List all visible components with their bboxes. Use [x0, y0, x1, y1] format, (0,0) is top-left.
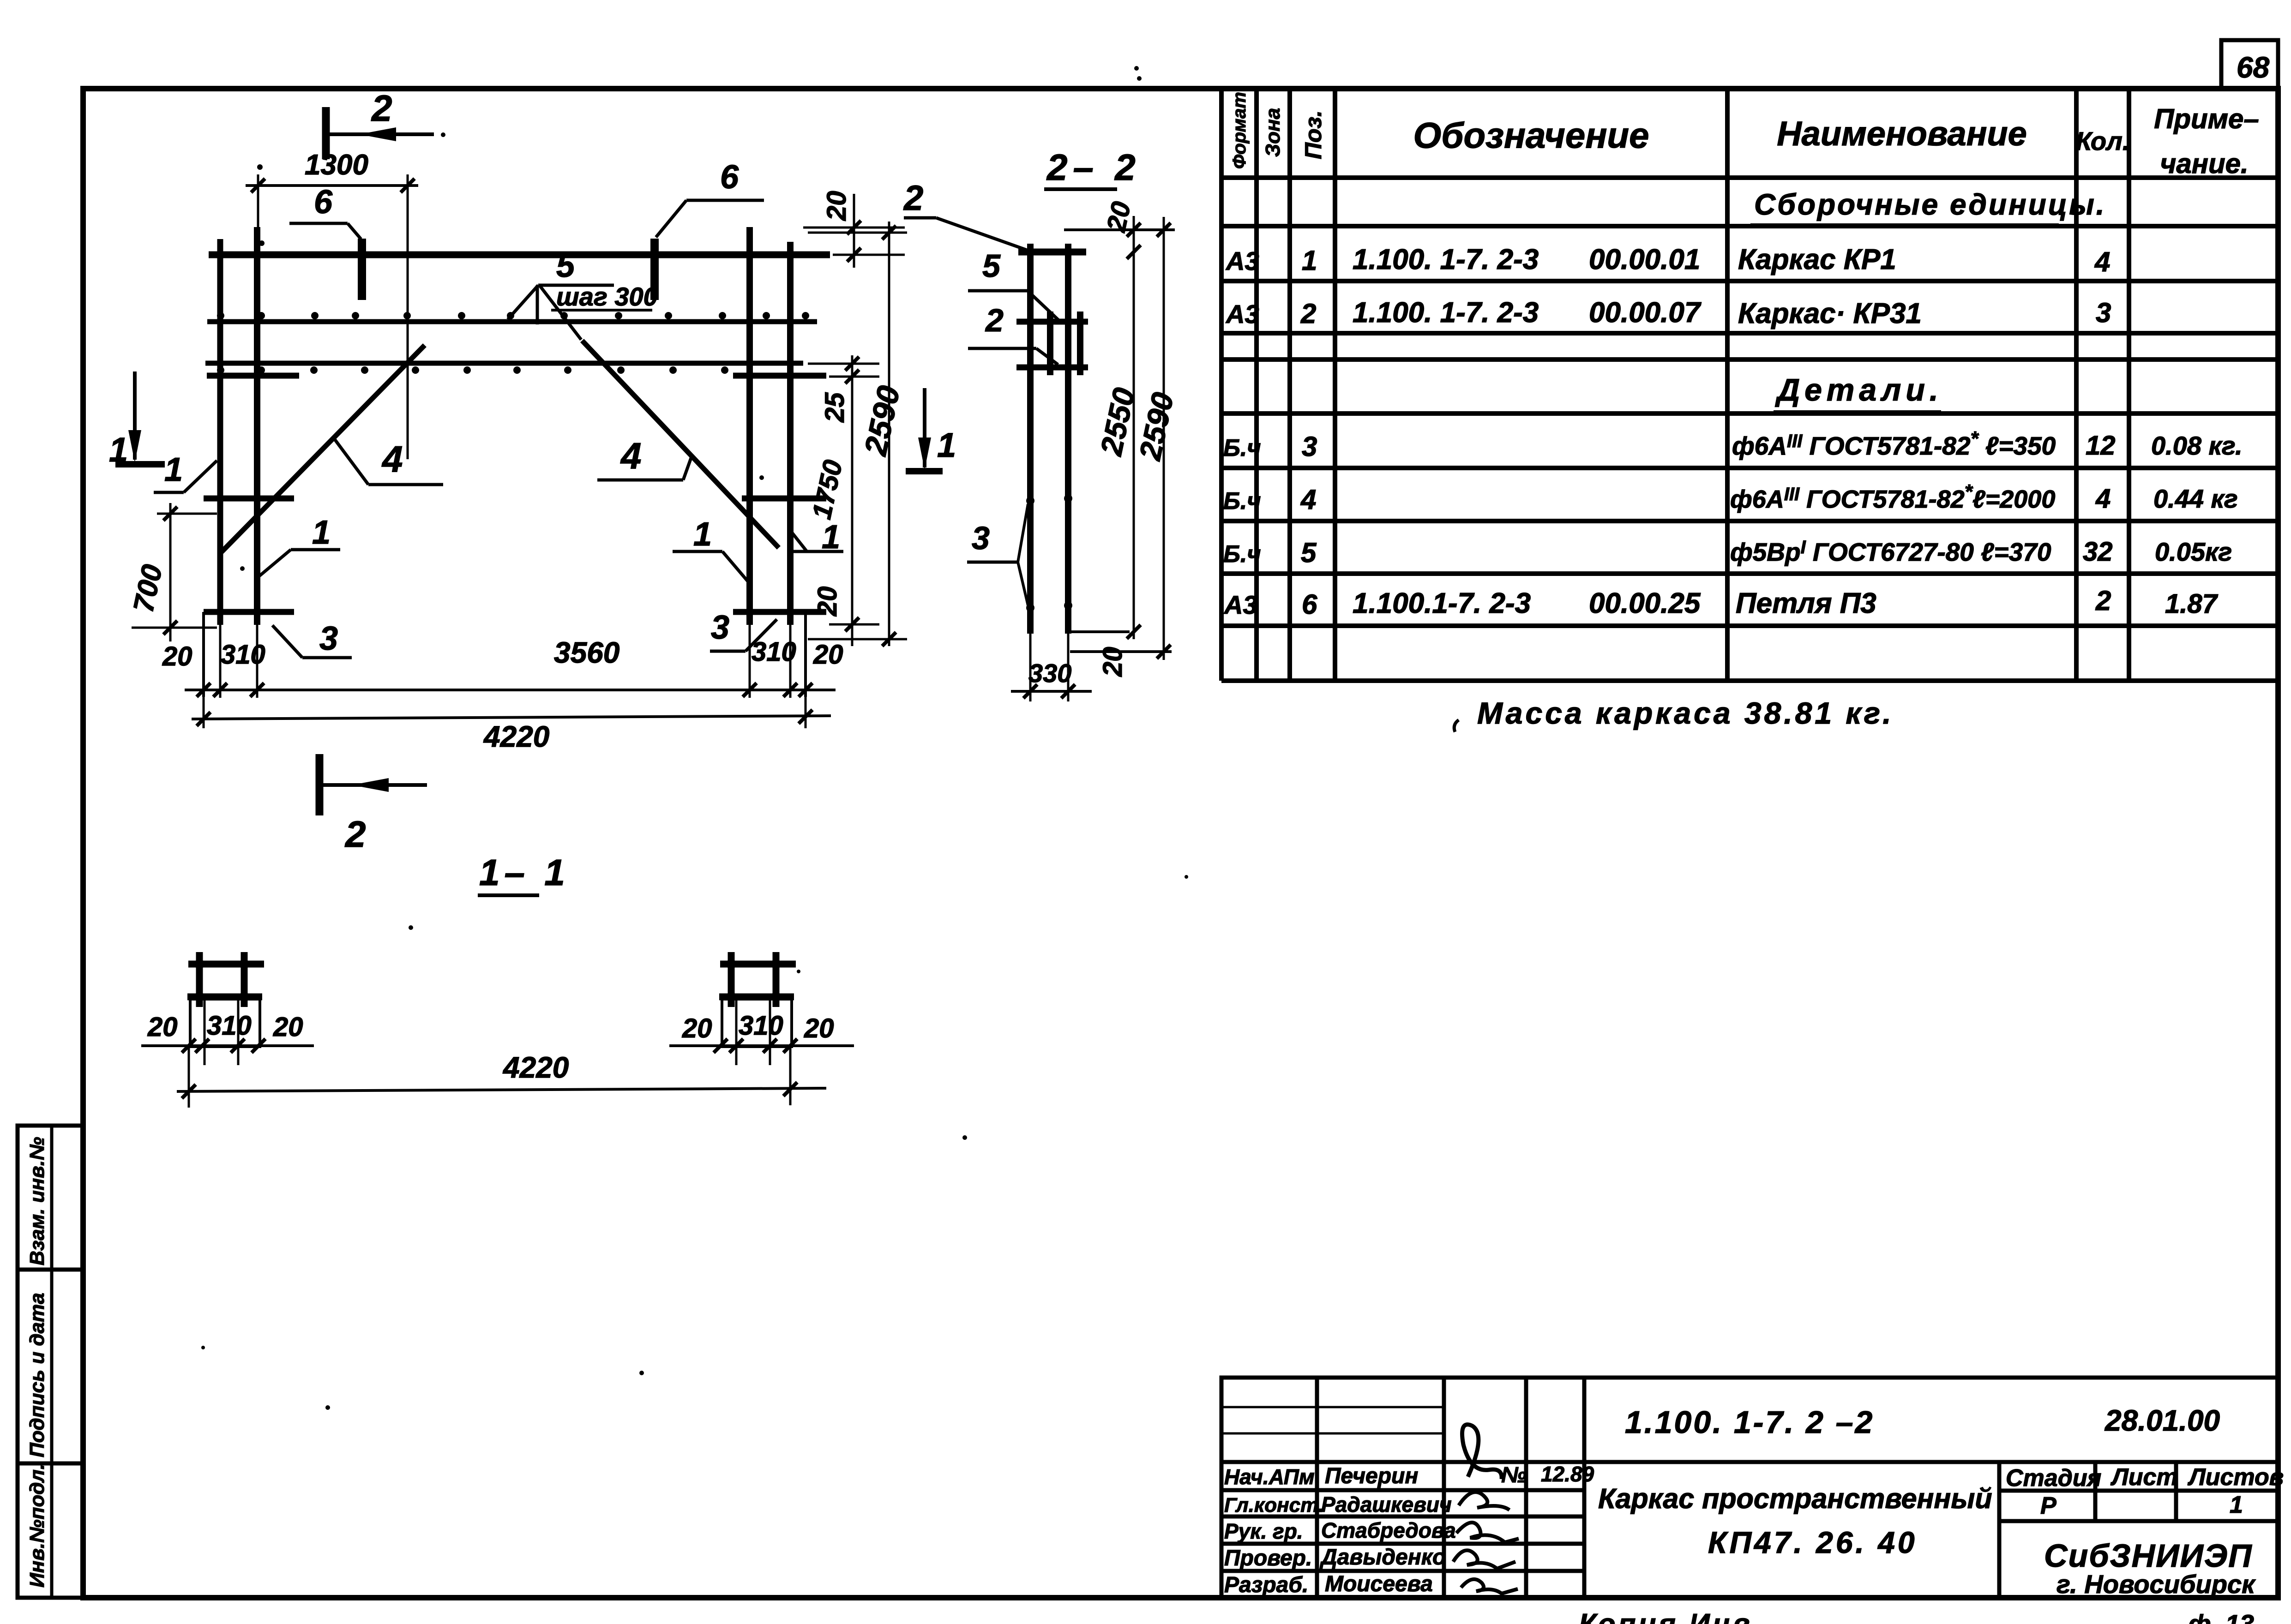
- bottom dimension chain 20/310/3560/310/20: [185, 689, 836, 691]
- weld dots on upper mesh bar (pos.5 cross wires): [217, 312, 809, 319]
- dimension 2590 right: [888, 222, 890, 646]
- svg-text:Лист: Лист: [2110, 1464, 2178, 1491]
- right column inner bar pos.1: [746, 227, 753, 625]
- svg-text:20: 20: [1098, 647, 1128, 677]
- section mark 1-1 right: [923, 388, 926, 467]
- svg-text:20: 20: [822, 191, 852, 221]
- svg-text:0.08 кг.: 0.08 кг.: [2151, 431, 2243, 460]
- svg-text:А3: А3: [1225, 300, 1259, 329]
- svg-text:чание.: чание.: [2160, 148, 2248, 179]
- 1-1 left column section contour: [190, 999, 260, 1047]
- svg-text:Провер.: Провер.: [1224, 1546, 1312, 1570]
- svg-text:0.05кг: 0.05кг: [2155, 537, 2232, 566]
- svg-text:3: 3: [711, 609, 729, 646]
- svg-text:Давыденко: Давыденко: [1319, 1545, 1446, 1570]
- dimension 20 top right: [803, 227, 905, 229]
- 1-1 left section inner extension lines: [204, 999, 206, 1065]
- left column cross bars pos.3: [207, 373, 299, 379]
- svg-text:Наименование: Наименование: [1777, 114, 2027, 153]
- svg-text:2: 2: [2095, 585, 2111, 616]
- dimension 1300: [246, 184, 418, 187]
- 2-2 bottom extension lines: [1070, 630, 1130, 633]
- svg-text:Рук. гр.: Рук. гр.: [1224, 1519, 1303, 1543]
- svg-text:4: 4: [2094, 246, 2110, 277]
- svg-text:3: 3: [1302, 431, 1317, 462]
- svg-text:6: 6: [720, 159, 739, 196]
- svg-text:Гл.конст.: Гл.конст.: [1224, 1494, 1324, 1516]
- svg-text:12.89: 12.89: [1541, 1462, 1594, 1486]
- svg-text:310: 310: [221, 640, 265, 670]
- svg-text:3: 3: [972, 520, 990, 556]
- svg-text:КП47. 26. 40: КП47. 26. 40: [1708, 1525, 1918, 1559]
- left column foot cover line: [204, 613, 220, 697]
- svg-text:20: 20: [162, 641, 192, 671]
- svg-text:68: 68: [2237, 51, 2270, 84]
- 2-2 dimension 2590: [1163, 217, 1165, 660]
- left lifting loop pos.6: [358, 239, 366, 300]
- svg-text:5: 5: [556, 247, 575, 284]
- svg-text:3: 3: [2096, 297, 2111, 328]
- right column foot cover line: [790, 613, 806, 697]
- svg-text:6: 6: [1302, 589, 1317, 620]
- right diagonal bar pos.4: [582, 341, 779, 548]
- lower mesh longitudinal bar pos.2: [205, 361, 803, 366]
- 1-1 right dimensions 20/310/20: [669, 1044, 854, 1047]
- left diagonal bar pos.4: [222, 345, 425, 552]
- svg-text:1: 1: [2230, 1492, 2243, 1518]
- svg-text:6: 6: [314, 184, 333, 221]
- svg-text:28.01.00: 28.01.00: [2105, 1404, 2220, 1437]
- svg-text:25: 25: [820, 392, 850, 423]
- svg-text:Взам. инв.№: Взам. инв.№: [26, 1137, 48, 1265]
- svg-text:Кол.: Кол.: [2076, 126, 2130, 156]
- top chord bar pos.2: [209, 252, 830, 258]
- box Взам. инв.№: [18, 1126, 83, 1270]
- box Подпись и дата: [18, 1270, 83, 1463]
- svg-text:4220: 4220: [483, 720, 549, 753]
- svg-text:20: 20: [804, 1013, 834, 1043]
- svg-text:Обозначение: Обозначение: [1413, 115, 1649, 156]
- dimension 4220 overall: [192, 716, 831, 719]
- svg-text:Стадия: Стадия: [2006, 1465, 2101, 1492]
- 2-2 dimension 2550: [1127, 625, 1141, 639]
- svg-text:ф6АIII ГОСТ5781-82*ℓ=2000: ф6АIII ГОСТ5781-82*ℓ=2000: [1730, 480, 2055, 513]
- 1-1 left dimensions 20/310/20: [141, 1044, 314, 1047]
- svg-text:Нач.АПм: Нач.АПм: [1224, 1465, 1315, 1489]
- sheet number box 68: [2221, 40, 2278, 89]
- 2-2 dimension 20 top: [1133, 216, 1135, 639]
- svg-text:А3: А3: [1225, 246, 1259, 276]
- svg-text:1.100. 1-7. 2-3: 1.100. 1-7. 2-3: [1353, 244, 1539, 276]
- svg-text:330: 330: [1028, 659, 1071, 688]
- svg-text:12: 12: [2086, 431, 2116, 461]
- svg-text:№: №: [1501, 1463, 1527, 1487]
- scan specks: [201, 66, 1188, 1410]
- svg-text:2– 2: 2– 2: [1046, 147, 1141, 188]
- svg-text:Сборочные единицы.: Сборочные единицы.: [1754, 188, 2106, 221]
- svg-text:Печерин: Печерин: [1325, 1464, 1418, 1488]
- signature squiggles: [1462, 1425, 1502, 1479]
- svg-text:Б.ч: Б.ч: [1223, 435, 1261, 461]
- svg-text:1– 1: 1– 1: [479, 852, 570, 893]
- section mark 2-2 top: [322, 107, 330, 159]
- svg-text:Масса каркаса 38.81 кг.: Масса каркаса 38.81 кг.: [1477, 696, 1894, 730]
- svg-text:1: 1: [1302, 245, 1317, 276]
- svg-text:2: 2: [985, 302, 1004, 338]
- svg-text:00.00.01: 00.00.01: [1589, 244, 1700, 276]
- extension lines below columns: [204, 625, 806, 728]
- 2-2 weld dots pos.3 points: [1026, 497, 1034, 505]
- svg-text:310: 310: [207, 1011, 252, 1041]
- svg-text:Б.ч: Б.ч: [1223, 541, 1261, 568]
- 1-1 right section inner extension lines: [735, 999, 738, 1065]
- 2-2 top cross bar: [1018, 249, 1086, 256]
- section mark 2-2 bottom: [316, 754, 324, 815]
- svg-text:20: 20: [1101, 199, 1136, 235]
- svg-text:Детали.: Детали.: [1775, 372, 1943, 407]
- svg-text:1.100. 1-7. 2 –2: 1.100. 1-7. 2 –2: [1625, 1405, 1874, 1440]
- svg-text:Формат: Формат: [1229, 92, 1250, 169]
- svg-text:Каркас пространственный: Каркас пространственный: [1598, 1483, 1992, 1514]
- svg-text:Б.ч: Б.ч: [1223, 488, 1261, 515]
- svg-text:ф5ВрI ГОСТ6727-80 ℓ=370: ф5ВрI ГОСТ6727-80 ℓ=370: [1730, 537, 2051, 566]
- svg-text:А3: А3: [1223, 590, 1257, 619]
- svg-text:Инв.№подл.: Инв.№подл.: [26, 1464, 48, 1588]
- svg-text:Листов: Листов: [2187, 1464, 2284, 1491]
- box Инв. №подл.: [18, 1463, 83, 1598]
- svg-text:2: 2: [1300, 298, 1316, 329]
- left column outer bar pos.1: [217, 239, 223, 625]
- 2-2 left bar pos.1: [1027, 244, 1034, 634]
- svg-text:1: 1: [109, 431, 128, 469]
- svg-text:Стабредова: Стабредова: [1321, 1518, 1456, 1542]
- svg-text:1.87: 1.87: [2165, 589, 2219, 619]
- svg-text:1.100.1-7. 2-3: 1.100.1-7. 2-3: [1353, 587, 1531, 619]
- svg-text:Поз.: Поз.: [1300, 110, 1326, 159]
- svg-text:00.00.25: 00.00.25: [1589, 587, 1701, 619]
- svg-text:2: 2: [371, 88, 392, 129]
- svg-text:Петля П3: Петля П3: [1736, 587, 1876, 619]
- svg-text:Каркас· КР31: Каркас· КР31: [1738, 298, 1922, 330]
- 2-2 right bar pos.1: [1065, 244, 1071, 634]
- svg-text:4: 4: [1300, 484, 1316, 515]
- upper mesh longitudinal bar pos.2: [207, 319, 817, 324]
- svg-text:32: 32: [2083, 537, 2113, 567]
- 2-2 loop assembly pos.5/2: [1047, 312, 1053, 375]
- svg-text:Разраб.: Разраб.: [1224, 1573, 1308, 1597]
- svg-text:Радашкевич: Радашкевич: [1321, 1492, 1452, 1516]
- svg-text:Подпись и дата: Подпись и дата: [26, 1293, 48, 1457]
- svg-text:Моисеева: Моисеева: [1325, 1572, 1433, 1596]
- svg-text:Каркас КР1: Каркас КР1: [1738, 244, 1896, 276]
- svg-text:2: 2: [344, 814, 366, 855]
- svg-text:3: 3: [319, 620, 338, 657]
- weld dots on lower mesh bar: [217, 366, 728, 374]
- svg-text:Р: Р: [2040, 1492, 2056, 1519]
- 1-1 right section bars: [728, 952, 735, 1007]
- svg-text:шаг 300: шаг 300: [556, 282, 658, 311]
- stamp inner divider: [50, 1126, 54, 1598]
- svg-text:4: 4: [381, 438, 403, 479]
- svg-text:0.44 кг: 0.44 кг: [2153, 484, 2238, 513]
- svg-text:310: 310: [739, 1011, 783, 1041]
- svg-text:20: 20: [682, 1013, 712, 1043]
- right column outer bar pos.1: [787, 242, 794, 625]
- svg-text:2: 2: [903, 179, 923, 218]
- right column cross bars pos.3: [733, 373, 826, 379]
- svg-text:20: 20: [273, 1012, 303, 1042]
- svg-text:Приме–: Приме–: [2154, 103, 2259, 134]
- svg-text:ф6АIII ГОСТ5781-82* ℓ=350: ф6АIII ГОСТ5781-82* ℓ=350: [1732, 427, 2056, 460]
- right lifting loop pos.6: [650, 239, 659, 300]
- dimension 700 left: [169, 503, 172, 641]
- svg-text:20: 20: [147, 1012, 178, 1042]
- svg-text:5: 5: [1301, 537, 1317, 568]
- 2-2 top extension line: [1064, 228, 1175, 231]
- 2-2 dimension 330: [1011, 690, 1092, 693]
- svg-text:г. Новосибирск: г. Новосибирск: [2056, 1570, 2256, 1599]
- svg-text:1: 1: [312, 514, 331, 551]
- svg-text:ф. 13: ф. 13: [2188, 1609, 2254, 1624]
- svg-text:00.00.07: 00.00.07: [1589, 297, 1702, 329]
- svg-text:Копия Инв: Копия Инв: [1579, 1608, 1753, 1624]
- svg-text:310: 310: [752, 637, 796, 667]
- svg-text:20: 20: [812, 586, 842, 617]
- svg-text:Зона: Зона: [1262, 108, 1284, 157]
- svg-text:1.100. 1-7. 2-3: 1.100. 1-7. 2-3: [1353, 297, 1539, 329]
- 1-1 right column section contour: [722, 999, 792, 1047]
- svg-text:4: 4: [620, 435, 642, 476]
- 1-1 dimension 4220: [177, 1088, 826, 1091]
- svg-text:СибЗНИИЭП: СибЗНИИЭП: [2044, 1538, 2253, 1574]
- svg-text:4: 4: [2095, 484, 2111, 514]
- left column inner bar pos.1: [254, 227, 260, 625]
- specification table grid: [1221, 89, 2278, 681]
- svg-text:1: 1: [693, 516, 712, 553]
- svg-text:5: 5: [982, 248, 1001, 284]
- svg-text:1300: 1300: [305, 149, 368, 181]
- svg-text:1: 1: [937, 426, 956, 464]
- svg-text:20: 20: [813, 640, 843, 670]
- svg-text:3560: 3560: [554, 636, 619, 669]
- 1-1 left section bars: [196, 952, 203, 1007]
- section mark 1-1 left: [133, 372, 137, 460]
- svg-text:1: 1: [164, 451, 183, 488]
- dimension chain 25 / 1750 / 20 right: [851, 355, 854, 646]
- svg-text:4220: 4220: [502, 1051, 569, 1084]
